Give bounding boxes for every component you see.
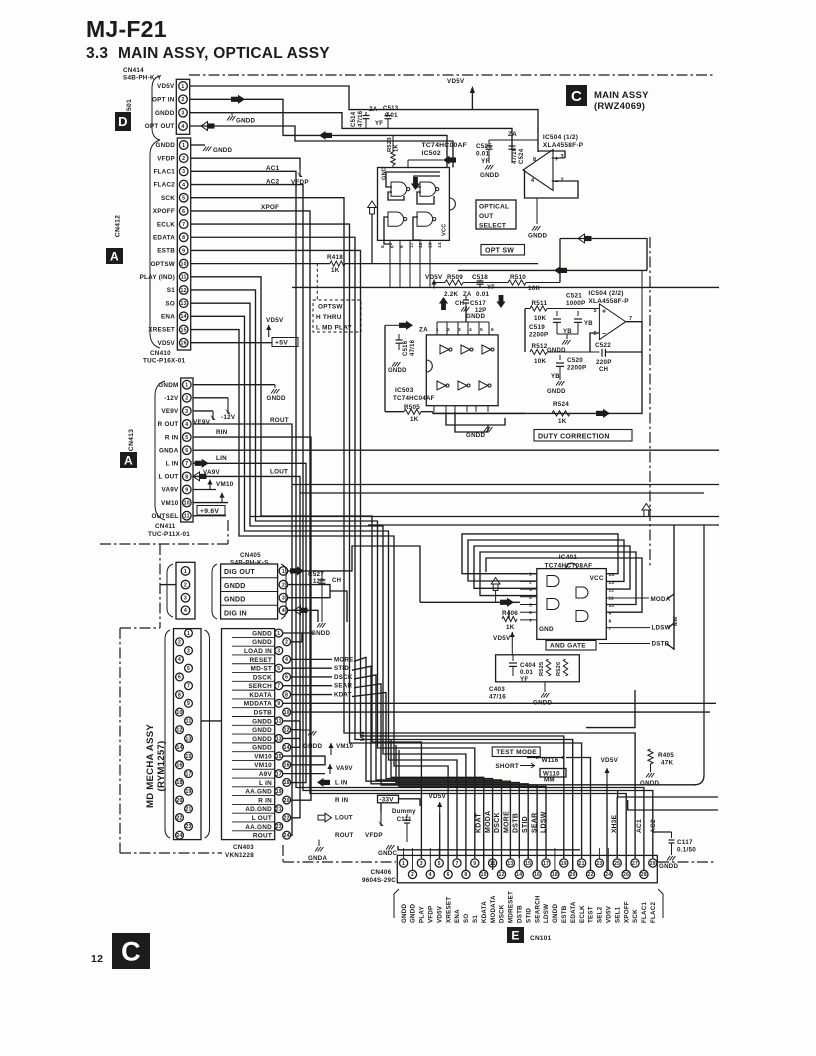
svg-text:17: 17 — [276, 771, 282, 777]
ground R405 — [650, 764, 652, 772]
wire FLAC2 / node AC2 — [191, 185, 653, 858]
svg-text:4: 4 — [182, 182, 185, 188]
svg-text:3: 3 — [181, 111, 184, 117]
svg-text:PLAY: PLAY — [419, 905, 426, 923]
svg-text:15: 15 — [181, 327, 187, 333]
svg-text:5: 5 — [185, 435, 188, 441]
wire y270 with arrow — [458, 269, 647, 271]
svg-text:10: 10 — [184, 500, 190, 506]
svg-text:8: 8 — [185, 474, 188, 480]
svg-text:L OUT: L OUT — [252, 815, 272, 822]
ground top CN403 — [283, 633, 302, 642]
svg-text:6: 6 — [182, 209, 185, 215]
svg-text:10K: 10K — [534, 315, 547, 322]
marker E — [507, 927, 524, 943]
svg-text:J501: J501 — [126, 99, 133, 115]
arrow OPT OUT — [201, 122, 208, 131]
wire R OUT / node ROUT — [193, 424, 292, 835]
and gate 4 — [576, 611, 588, 622]
svg-text:9: 9 — [185, 487, 188, 493]
svg-text:2: 2 — [185, 396, 188, 402]
svg-text:15: 15 — [276, 754, 282, 760]
wire -12V — [193, 397, 228, 399]
resistor R523 zigzag — [391, 152, 395, 165]
wire CN412 pin1 GNDD + ground — [191, 144, 205, 146]
svg-text:XLA4558F-P: XLA4558F-P — [588, 298, 629, 305]
box C404 R525 R526 — [496, 655, 580, 682]
svg-text:TC74HC00AF: TC74HC00AF — [422, 142, 468, 149]
connector MD MECHA 24pin — [174, 629, 202, 840]
top dash-dot border — [189, 74, 714, 76]
wire OPT IN pin2 — [190, 99, 447, 167]
svg-text:1000P: 1000P — [566, 300, 585, 307]
svg-text:XPOFF: XPOFF — [623, 901, 630, 923]
svg-text:3: 3 — [182, 169, 185, 175]
svg-text:E: E — [511, 928, 519, 942]
svg-text:MODATA: MODATA — [490, 895, 497, 923]
signal SEAR — [283, 685, 332, 687]
svg-text:5: 5 — [529, 603, 532, 609]
svg-text:19: 19 — [561, 861, 567, 867]
svg-text:GND: GND — [539, 626, 554, 633]
svg-text:DIG OUT: DIG OUT — [224, 569, 255, 576]
svg-text:2: 2 — [529, 579, 532, 585]
svg-text:2: 2 — [282, 582, 285, 588]
svg-text:C514: C514 — [351, 111, 357, 127]
svg-text:3: 3 — [185, 409, 188, 415]
svg-text:MJ-F21: MJ-F21 — [86, 16, 167, 42]
svg-text:STID: STID — [525, 908, 532, 923]
svg-text:VD5V: VD5V — [447, 78, 465, 85]
svg-text:OPT SW: OPT SW — [485, 247, 514, 254]
svg-text:7: 7 — [185, 461, 188, 467]
svg-text:18: 18 — [176, 780, 182, 786]
inverter 5 — [458, 381, 467, 390]
svg-text:MD MECHA ASSY: MD MECHA ASSY — [145, 724, 156, 808]
svg-text:2: 2 — [182, 156, 185, 162]
svg-text:GNDD: GNDD — [528, 233, 547, 240]
svg-text:47/16: 47/16 — [512, 147, 518, 164]
svg-text:GNDD: GNDD — [659, 863, 678, 870]
svg-text:OUTSEL: OUTSEL — [151, 513, 178, 520]
wire VFDP pin2 — [191, 158, 300, 169]
svg-text:KDAT: KDAT — [334, 692, 352, 699]
arrow up black left of cluster — [441, 304, 446, 311]
svg-text:ECLK: ECLK — [579, 905, 586, 923]
svg-text:FLAC1: FLAC1 — [641, 902, 648, 923]
svg-text:TEST MODE: TEST MODE — [496, 749, 537, 756]
svg-text:11: 11 — [184, 514, 190, 520]
table CN405 rows — [221, 564, 278, 619]
wire segment y810 — [628, 800, 718, 810]
svg-text:R IN: R IN — [335, 797, 349, 804]
svg-text:VA9V: VA9V — [336, 765, 353, 772]
svg-text:6: 6 — [285, 675, 288, 681]
box AND GATE — [546, 641, 596, 651]
svg-text:GNDD: GNDD — [252, 639, 272, 646]
nand gate 3 — [388, 212, 404, 226]
svg-text:8: 8 — [178, 692, 181, 698]
svg-text:2: 2 — [447, 327, 450, 333]
arrow up open on y516 — [644, 510, 649, 517]
svg-text:CN101: CN101 — [530, 935, 552, 942]
svg-text:MM: MM — [360, 731, 366, 741]
svg-text:7: 7 — [187, 684, 190, 690]
svg-text:IC504 (1/2): IC504 (1/2) — [543, 134, 578, 141]
svg-text:KDATA: KDATA — [481, 901, 488, 923]
svg-text:OPT OUT: OPT OUT — [145, 123, 175, 130]
dash-dot near CN411 bottom — [100, 543, 228, 545]
svg-text:YF: YF — [520, 676, 528, 683]
svg-text:1K: 1K — [394, 144, 400, 152]
right vertical dash-dot border — [649, 237, 651, 568]
wire OUTSEL / +9.6V — [193, 515, 226, 517]
svg-text:CN413: CN413 — [128, 429, 135, 451]
svg-text:47/16: 47/16 — [489, 694, 506, 701]
svg-text:SERCH: SERCH — [248, 683, 272, 690]
IC503 bottom pin wires — [433, 406, 435, 412]
svg-text:FLAC2: FLAC2 — [650, 902, 657, 923]
svg-text:CN412: CN412 — [115, 215, 122, 237]
svg-text:GNDD: GNDD — [388, 368, 407, 374]
svg-text:−: − — [602, 331, 606, 338]
svg-text:22: 22 — [284, 815, 290, 821]
svg-text:4: 4 — [181, 124, 184, 130]
svg-text:17: 17 — [185, 771, 191, 777]
svg-text:VM10: VM10 — [216, 481, 234, 488]
svg-text:(RWZ4069): (RWZ4069) — [594, 101, 645, 112]
svg-text:XPOFF: XPOFF — [153, 208, 175, 215]
inverter 1 — [440, 345, 449, 354]
svg-text:0.01: 0.01 — [385, 113, 398, 119]
svg-text:VFDP: VFDP — [428, 905, 435, 923]
svg-text:3: 3 — [561, 154, 564, 160]
svg-text:EDATA: EDATA — [153, 234, 175, 241]
svg-text:11: 11 — [276, 719, 282, 725]
svg-text:SEAR: SEAR — [531, 813, 538, 833]
svg-text:12: 12 — [181, 288, 187, 294]
svg-text:1: 1 — [181, 84, 184, 90]
wire VA9V — [193, 489, 216, 491]
svg-text:-12V: -12V — [221, 414, 236, 421]
svg-text:24: 24 — [284, 833, 290, 839]
svg-text:12: 12 — [498, 872, 504, 878]
and gate 3 — [576, 587, 588, 598]
wire DSTB long — [291, 711, 710, 713]
svg-text:MM: MM — [544, 777, 555, 784]
bottom dash-dot near CN406 — [282, 845, 284, 862]
svg-text:OPTSW: OPTSW — [318, 304, 343, 311]
wire GNDA long — [193, 449, 719, 451]
svg-text:10: 10 — [181, 261, 187, 267]
connector CN412 — [177, 138, 190, 350]
svg-text:MDDATA: MDDATA — [244, 701, 272, 708]
wire DIG IN — [288, 610, 318, 622]
wire A9V — [283, 773, 325, 775]
svg-text:15: 15 — [525, 861, 531, 867]
svg-text:1: 1 — [184, 569, 187, 575]
wire long y493 — [300, 492, 704, 494]
svg-text:14: 14 — [516, 872, 522, 878]
dashed line OPTSW select — [316, 263, 318, 300]
wire SO — [191, 303, 466, 870]
svg-text:R405: R405 — [658, 752, 674, 759]
svg-text:24: 24 — [605, 872, 611, 878]
svg-text:ZA: ZA — [508, 131, 517, 138]
IC503 top pin wires — [436, 322, 438, 335]
svg-text:9: 9 — [473, 861, 476, 867]
svg-text:7: 7 — [529, 618, 532, 624]
arrow mid staircase — [319, 131, 326, 140]
svg-text:DSCK: DSCK — [499, 904, 506, 923]
svg-text:1: 1 — [402, 861, 405, 867]
svg-text:13: 13 — [185, 736, 191, 742]
nand gate 4 — [417, 212, 433, 226]
svg-text:16: 16 — [176, 763, 182, 769]
svg-text:ROUT: ROUT — [253, 833, 272, 840]
resistor R405 — [648, 749, 653, 764]
wires GNDD rows 11-14 — [283, 721, 300, 747]
svg-text:3: 3 — [184, 596, 187, 602]
wire L OUT / node LOUT — [193, 476, 300, 817]
svg-text:SEARCH: SEARCH — [534, 895, 541, 923]
capacitor C513 — [387, 112, 389, 116]
svg-text:9: 9 — [277, 701, 280, 707]
wire column LDSW2 — [399, 750, 546, 858]
svg-text:LDSW: LDSW — [543, 904, 550, 923]
arrow L IN — [195, 461, 202, 466]
svg-text:20: 20 — [570, 872, 576, 878]
svg-text:11: 11 — [409, 242, 415, 248]
signal MORE — [291, 658, 332, 660]
wire R IN / node RIN — [193, 437, 311, 800]
wire VD5V pin1 — [190, 86, 538, 152]
ground GNDD pin3 — [231, 113, 233, 116]
svg-text:12: 12 — [284, 727, 290, 733]
svg-text:4: 4 — [469, 327, 472, 333]
svg-text:8: 8 — [464, 872, 467, 878]
svg-text:GNDD: GNDD — [552, 904, 559, 923]
svg-text:AC1: AC1 — [266, 165, 280, 172]
wires VM10 rows — [283, 756, 325, 765]
svg-text:SEL2: SEL2 — [597, 906, 604, 923]
wire vertical x674 — [673, 525, 675, 650]
svg-text:GNDC: GNDC — [378, 850, 397, 857]
wire vertical x704 with curve — [694, 525, 704, 785]
op IC503 TC74HC04AF — [426, 335, 498, 406]
svg-text:FLAC2: FLAC2 — [153, 182, 175, 189]
svg-text:10: 10 — [284, 710, 290, 716]
svg-text:H THRU: H THRU — [316, 314, 342, 321]
svg-text:S1: S1 — [167, 287, 175, 294]
svg-text:GNDD: GNDD — [466, 432, 485, 439]
wire long y525 — [368, 524, 719, 526]
svg-text:3: 3 — [458, 327, 461, 333]
and gate 2 — [547, 599, 559, 610]
svg-text:GNDD: GNDD — [252, 727, 272, 734]
svg-text:R523: R523 — [387, 137, 393, 152]
svg-text:6: 6 — [447, 872, 450, 878]
svg-text:C403: C403 — [489, 686, 505, 693]
svg-text:0.1/50: 0.1/50 — [677, 847, 696, 854]
svg-text:+: + — [555, 156, 559, 163]
svg-text:C: C — [571, 88, 582, 105]
svg-text:2.2K: 2.2K — [444, 291, 459, 298]
svg-text:XPOF: XPOF — [261, 204, 279, 211]
svg-text:LDSW: LDSW — [652, 625, 671, 632]
wire XPOFF / node XPOF — [191, 211, 627, 870]
svg-text:1: 1 — [182, 143, 185, 149]
svg-text:DSTB: DSTB — [513, 813, 520, 833]
arrow R524 — [596, 411, 603, 416]
svg-text:KDATA: KDATA — [249, 692, 272, 699]
svg-text:S4B-PH-K-S: S4B-PH-K-S — [230, 560, 269, 567]
nand gate 1 — [391, 182, 407, 196]
svg-text:VD5V: VD5V — [606, 905, 613, 923]
wire VD5V drop to pin24 — [606, 784, 608, 870]
svg-text:DSCK: DSCK — [334, 674, 353, 681]
svg-text:5: 5 — [438, 861, 441, 867]
svg-text:11: 11 — [186, 719, 192, 725]
svg-text:4: 4 — [285, 657, 288, 663]
wire FLAC1 / node AC1 — [191, 171, 644, 870]
wire to CN403 — [201, 720, 222, 722]
svg-text:R511: R511 — [532, 300, 548, 307]
inverter 2 — [461, 345, 470, 354]
svg-text:STID: STID — [522, 816, 529, 833]
svg-text:18: 18 — [284, 780, 290, 786]
svg-text:17: 17 — [543, 861, 549, 867]
svg-text:VM10: VM10 — [336, 743, 353, 750]
wires R511 node — [525, 308, 530, 310]
svg-text:DUTY CORRECTION: DUTY CORRECTION — [538, 433, 610, 440]
svg-text:9604S-29C: 9604S-29C — [362, 877, 396, 884]
svg-text:26: 26 — [623, 872, 629, 878]
svg-text:RESET: RESET — [249, 657, 272, 664]
svg-text:AC1: AC1 — [636, 819, 643, 833]
svg-text:16: 16 — [534, 872, 540, 878]
svg-text:+9.6V: +9.6V — [200, 508, 219, 515]
svg-text:DSTB: DSTB — [517, 905, 524, 923]
svg-text:+: + — [602, 309, 606, 316]
svg-text:14: 14 — [284, 745, 290, 751]
wire PLAY — [191, 277, 422, 858]
svg-text:1: 1 — [282, 569, 285, 575]
svg-text:7: 7 — [455, 861, 458, 867]
svg-text:ZA: ZA — [463, 292, 472, 298]
svg-text:DSCK: DSCK — [253, 674, 272, 681]
svg-text:C524: C524 — [519, 148, 525, 164]
svg-text:4: 4 — [185, 422, 188, 428]
opamp2 output/feedback wires — [606, 322, 642, 352]
wire L IN / node LIN — [193, 463, 306, 782]
marker C page bottom — [112, 933, 150, 969]
svg-text:GNDD: GNDD — [252, 745, 272, 752]
svg-text:OPTICAL: OPTICAL — [479, 204, 509, 211]
svg-text:9: 9 — [182, 248, 185, 254]
svg-text:R418: R418 — [327, 254, 343, 261]
svg-text:3: 3 — [420, 861, 423, 867]
svg-text:GNDD: GNDD — [224, 583, 246, 590]
box OPT SW — [481, 245, 525, 256]
svg-text:RIN: RIN — [216, 429, 228, 436]
svg-text:13: 13 — [507, 861, 513, 867]
wire EDATA — [191, 237, 573, 870]
box OPTICAL OUT SELECT — [476, 200, 516, 229]
svg-text:PLAY (IND): PLAY (IND) — [140, 274, 175, 281]
wire into pin5 with arrows — [420, 601, 520, 603]
box DUTY CORRECTION — [534, 430, 632, 442]
svg-text:19: 19 — [276, 789, 282, 795]
svg-text:ZA: ZA — [369, 107, 378, 113]
svg-text:16: 16 — [181, 341, 187, 347]
CN406 top stubs — [403, 848, 405, 859]
wire ENA — [191, 316, 457, 858]
svg-text:18: 18 — [552, 872, 558, 878]
svg-text:0.01: 0.01 — [520, 669, 533, 676]
svg-text:ROUT: ROUT — [270, 417, 289, 424]
svg-text:6: 6 — [185, 448, 188, 454]
svg-text:A9V: A9V — [259, 771, 273, 778]
svg-text:A: A — [124, 453, 133, 467]
svg-text:R509: R509 — [447, 274, 463, 281]
wire MODA — [606, 597, 649, 599]
svg-text:8: 8 — [182, 235, 185, 241]
svg-text:19: 19 — [185, 789, 191, 795]
svg-text:23: 23 — [596, 861, 602, 867]
svg-text:GNDD: GNDD — [267, 395, 286, 402]
svg-text:8: 8 — [533, 157, 536, 163]
svg-text:VD5V: VD5V — [601, 757, 619, 764]
arrow down black right — [499, 295, 504, 302]
arrow OPT IN — [231, 97, 238, 102]
svg-text:11: 11 — [181, 275, 187, 281]
wire DSTB label — [599, 643, 650, 645]
svg-text:1: 1 — [187, 631, 190, 637]
wire GNDD rows — [288, 585, 330, 598]
svg-text:MAIN ASSY, OPTICAL ASSY: MAIN ASSY, OPTICAL ASSY — [118, 45, 330, 62]
marker A (CN413) — [120, 452, 137, 468]
svg-text:GNDD: GNDD — [252, 630, 272, 637]
svg-text:LOAD IN: LOAD IN — [244, 648, 272, 655]
svg-text:MM: MM — [673, 616, 679, 626]
svg-text:GNDD: GNDD — [466, 313, 485, 320]
svg-text:5: 5 — [277, 666, 280, 672]
svg-text:IC503: IC503 — [395, 387, 414, 394]
svg-text:VA9V: VA9V — [162, 487, 180, 494]
svg-text:8: 8 — [609, 618, 612, 624]
svg-text:1K: 1K — [558, 418, 567, 425]
svg-text:5: 5 — [380, 245, 386, 248]
svg-text:3: 3 — [277, 648, 280, 654]
svg-text:VFDP: VFDP — [157, 155, 175, 162]
svg-text:VFDP: VFDP — [365, 832, 383, 839]
svg-text:1: 1 — [185, 383, 188, 389]
svg-text:1K: 1K — [506, 624, 515, 631]
svg-text:VA9V: VA9V — [203, 469, 221, 476]
wire long y484 — [292, 484, 719, 486]
svg-text:2200P: 2200P — [567, 365, 586, 372]
svg-text:CH: CH — [599, 367, 608, 373]
IC502 internal wires — [386, 172, 440, 187]
wire column DSTB2 — [396, 745, 519, 858]
svg-text:KDAT: KDAT — [476, 813, 483, 833]
marker D — [115, 112, 131, 131]
svg-text:29: 29 — [650, 861, 656, 867]
svg-text:XRESET: XRESET — [445, 897, 452, 923]
svg-text:ECLK: ECLK — [157, 221, 175, 228]
svg-text:+5V: +5V — [275, 340, 288, 347]
